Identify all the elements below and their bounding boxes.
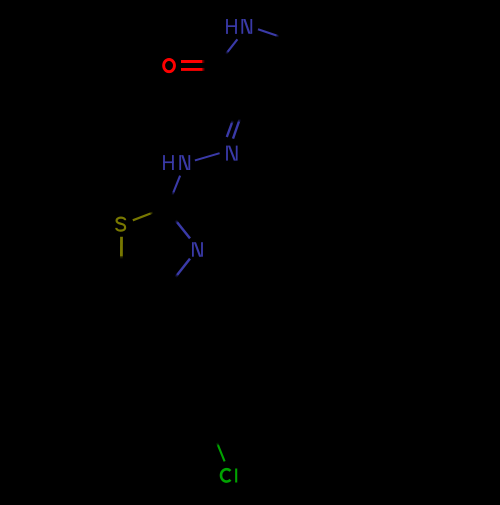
- atom label N1 indoline NH "HN": [226, 19, 252, 34]
- wire bond N3-C2thiazole blue half: [173, 176, 180, 193]
- atom label S thiazole sulfur: [116, 218, 125, 231]
- wire bond Cphenyl-Cl green half: [218, 445, 225, 461]
- atom label O carbonyl oxygen: [164, 59, 175, 71]
- wire bond S1-C2 thiazole yellow half: [133, 214, 151, 221]
- atom label N2 hydrazone N: [226, 146, 238, 161]
- wire bond C3=N2 blue half, left line: [227, 123, 232, 137]
- wire bond C3=N2 blue half, right line: [233, 122, 239, 139]
- wire bond N2-N3 hydrazine N-N full blue: [195, 153, 220, 160]
- wire bond S1-C5 thiazole yellow half: [120, 237, 123, 256]
- wire bond N3'-C4' blue half: [177, 259, 190, 275]
- wire bond N1-C7a blue half: [258, 29, 277, 35]
- wire bond O=C2 red half, bottom line: [181, 68, 202, 71]
- wire bond N1-C2 blue half: [228, 39, 238, 52]
- atom label N3' thiazole nitrogen: [192, 242, 203, 257]
- atom label N3 hydrazide NH "HN": [163, 155, 190, 170]
- wire bond O=C2 red half, top line: [181, 60, 202, 63]
- atom label Cl chlorine: [221, 469, 236, 483]
- wire bond C2=N3 thiazole blue half: [177, 222, 190, 238]
